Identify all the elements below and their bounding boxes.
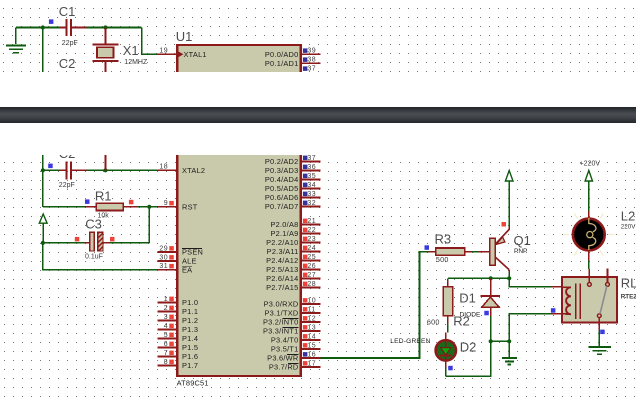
svg-text:11: 11 (307, 306, 315, 313)
pin 15 P3.5/T1 (302, 348, 321, 350)
pin 22 P2.1/A9 (302, 233, 321, 235)
transistor Q1 PNP (479, 251, 490, 253)
svg-text:22pF: 22pF (59, 182, 75, 189)
svg-text:D2: D2 (460, 340, 477, 355)
svg-text:18: 18 (159, 164, 168, 171)
resistor R3 500 (425, 245, 430, 250)
ground (relay) (589, 346, 611, 348)
svg-text:0.1uF: 0.1uF (85, 253, 103, 260)
svg-text:L2: L2 (621, 208, 635, 223)
svg-text:24: 24 (307, 245, 316, 252)
pin 12 P3.2/INT0 (302, 321, 321, 323)
pin 13 P3.3/INT1 (302, 330, 321, 332)
svg-text:P3.6/WR: P3.6/WR (267, 354, 298, 363)
svg-text:37: 37 (307, 155, 316, 162)
svg-text:16: 16 (307, 351, 316, 358)
svg-text:14: 14 (307, 333, 316, 340)
svg-text:RL1: RL1 (621, 276, 636, 291)
chip U1 AT89C51 (bottom portion) (177, 148, 300, 376)
pin 6 P1.5 (158, 347, 177, 349)
svg-text:23: 23 (307, 236, 316, 243)
relay coil (566, 287, 571, 314)
pin 38 P0.1/AD1 (302, 62, 321, 64)
svg-text:P3.0/RXD: P3.0/RXD (264, 300, 299, 309)
pin 19 XTAL1 (158, 53, 177, 55)
svg-text:P0.0/AD0: P0.0/AD0 (265, 50, 299, 59)
svg-text:P0.6/AD6: P0.6/AD6 (265, 193, 299, 202)
svg-text:P1.4: P1.4 (182, 334, 198, 343)
svg-text:P1.2: P1.2 (182, 316, 198, 325)
power +5V arrow terminal (39, 214, 47, 223)
svg-text:500: 500 (436, 255, 449, 264)
svg-text:3: 3 (164, 314, 168, 321)
svg-text:+220V: +220V (580, 160, 601, 167)
relay common pin (598, 318, 600, 330)
svg-text:XTAL1: XTAL1 (184, 50, 207, 59)
svg-text:P0.7/AD7: P0.7/AD7 (265, 202, 299, 211)
svg-text:17: 17 (307, 360, 316, 367)
pin 2 P1.1 (158, 311, 177, 313)
node: D1/LED ground row (489, 339, 493, 343)
svg-text:R3: R3 (435, 231, 452, 246)
svg-text:12: 12 (307, 315, 316, 322)
svg-text:37: 37 (307, 66, 316, 72)
svg-text:9: 9 (164, 200, 168, 207)
pin 37 P0.2/AD2 (cut) (303, 66, 308, 71)
svg-text:P2.1/A9: P2.1/A9 (270, 229, 298, 238)
wire (16, 27, 60, 29)
node: crystal top junction (103, 25, 107, 29)
svg-text:P2.4/A12: P2.4/A12 (266, 256, 298, 265)
svg-text:7: 7 (164, 350, 168, 357)
ground (D1/LED) (508, 341, 510, 357)
svg-text:22: 22 (307, 227, 316, 234)
svg-text:33: 33 (307, 191, 316, 198)
svg-text:P1.7: P1.7 (182, 361, 198, 370)
pin 5 P1.4 (158, 338, 177, 340)
svg-text:P2.5/A13: P2.5/A13 (266, 265, 298, 274)
svg-text:P3.5/T1: P3.5/T1 (271, 345, 299, 354)
svg-text:R1: R1 (95, 189, 112, 204)
pin 3 P1.2 (158, 320, 177, 322)
pin 35 P0.4/AD4 (302, 179, 321, 181)
wire (gnd rail vertical, continues from top view) (42, 155, 44, 207)
svg-text:AT89C51: AT89C51 (177, 378, 209, 387)
svg-text:P0.1/AD1: P0.1/AD1 (265, 59, 299, 68)
svg-text:P2.7/A15: P2.7/A15 (266, 283, 298, 292)
node: ground stem (507, 339, 511, 343)
svg-text:P3.3/INT1: P3.3/INT1 (263, 327, 299, 336)
svg-text:1: 1 (164, 296, 168, 303)
svg-text:600: 600 (427, 317, 440, 326)
resistor R1 10k (43, 206, 86, 208)
svg-text:12MHZ: 12MHZ (124, 59, 148, 66)
pin 23 P2.2/A10 (302, 242, 321, 244)
svg-text:C3: C3 (85, 217, 102, 232)
svg-text:P3.1/TXD: P3.1/TXD (264, 309, 298, 318)
pin 14 P3.4/T0 (302, 339, 321, 341)
wire relay coil bottom to ground node (552, 313, 562, 315)
svg-text:P1.1: P1.1 (182, 307, 198, 316)
lamp L2 220V (588, 211, 590, 219)
svg-text:25: 25 (307, 254, 316, 261)
svg-text:19: 19 (159, 48, 168, 55)
svg-text:X1: X1 (123, 43, 139, 58)
svg-text:39: 39 (307, 48, 316, 55)
svg-text:13: 13 (307, 324, 316, 331)
resistor R2 500 (vertical) (447, 278, 449, 280)
pin 31 EA (158, 269, 177, 271)
svg-text:6: 6 (164, 341, 168, 348)
wire collector node row (508, 273, 510, 279)
svg-text:220V: 220V (621, 224, 636, 231)
pin 17 P3.7/RD (302, 366, 321, 368)
wire collector to relay coil (509, 278, 551, 286)
pin 30 ALE (158, 260, 177, 262)
schematic view: top panel (0, 0, 636, 72)
pin 29 PSEN (158, 251, 177, 253)
svg-text:2: 2 (164, 305, 168, 312)
svg-text:5: 5 (164, 332, 168, 339)
node: RST junction (147, 205, 151, 209)
svg-text:U1: U1 (176, 29, 193, 44)
relay RL1 RTE24005F (562, 277, 617, 323)
capacitor C3 0.1uF (43, 242, 85, 244)
svg-text:36: 36 (307, 164, 316, 171)
window divider bar (0, 107, 636, 123)
svg-text:P1.6: P1.6 (182, 352, 198, 361)
pin 36 P0.3/AD3 (302, 170, 321, 172)
wire (87, 27, 142, 29)
pin 26 P2.5/A13 (302, 269, 321, 271)
svg-text:28: 28 (307, 281, 316, 288)
pin 16 P3.6/WR (302, 357, 321, 359)
svg-text:P3.4/T0: P3.4/T0 (271, 336, 299, 345)
pin 11 P3.1/TXD (302, 312, 321, 314)
svg-text:C2: C2 (59, 155, 76, 161)
pin 33 P0.6/AD6 (302, 197, 321, 199)
node: power/C3 junction (41, 241, 45, 245)
svg-text:P0.4/AD4: P0.4/AD4 (265, 175, 299, 184)
op: U1 chip (AT89C51) top portion (177, 45, 300, 85)
svg-text:C1: C1 (59, 4, 76, 19)
svg-text:P1.0: P1.0 (182, 298, 198, 307)
svg-text:P2.0/A8: P2.0/A8 (270, 220, 298, 229)
pin 37 P0.2/AD2 (302, 161, 321, 163)
LED D2 LED-GREEN (445, 333, 447, 341)
svg-text:PSEN: PSEN (182, 248, 203, 257)
power +5V arrow above Q1 (505, 171, 513, 182)
wire RST junction down to C3 (148, 207, 150, 243)
capacitor C2 22pF (43, 169, 60, 171)
wire to XTAL2 (87, 169, 158, 171)
node: collector/D1 (489, 276, 493, 280)
pin 4 P1.3 (158, 329, 177, 331)
pin 18 XTAL2 (158, 169, 177, 171)
svg-text:27: 27 (307, 272, 316, 279)
node: crystal bottom junction (103, 168, 107, 172)
svg-text:P0.3/AD3: P0.3/AD3 (265, 166, 299, 175)
svg-text:Q1: Q1 (514, 233, 531, 248)
pin 24 P2.3/A11 (302, 251, 321, 253)
pin 39 P0.0/AD0 (302, 53, 321, 55)
relay switch blade (600, 286, 607, 314)
svg-text:P1.5: P1.5 (182, 343, 198, 352)
ground (15, 28, 17, 45)
svg-text:P2.3/A11: P2.3/A11 (267, 247, 299, 256)
wire power to EA (43, 243, 158, 270)
node: C2 left junction (41, 168, 45, 172)
svg-text:35: 35 (307, 173, 316, 180)
pin 1 P1.0 (158, 302, 177, 304)
pin 32 P0.7/AD7 (302, 206, 321, 208)
pin 27 P2.6/A14 (302, 278, 321, 280)
svg-text:P2.6/A14: P2.6/A14 (266, 274, 298, 283)
wire to XTAL1 (142, 28, 158, 55)
svg-text:LED-GREEN: LED-GREEN (390, 338, 430, 345)
pin 34 P0.5/AD5 (302, 188, 321, 190)
svg-text:21: 21 (307, 218, 316, 225)
svg-text:31: 31 (159, 263, 168, 270)
svg-text:38: 38 (307, 57, 316, 64)
svg-text:RST: RST (182, 202, 198, 211)
pin 7 P1.6 (158, 356, 177, 358)
svg-text:34: 34 (307, 182, 316, 189)
node: C1 left / gnd rail junction (41, 25, 45, 29)
pin 8 P1.7 (158, 365, 177, 367)
pin 28 P2.7/A15 (302, 287, 321, 289)
svg-text:PNP: PNP (514, 248, 527, 255)
svg-text:22pF: 22pF (62, 40, 78, 47)
pin 10 P3.0/RXD (302, 303, 321, 305)
crystal X1 12MHZ (105, 28, 107, 44)
pin 21 P2.0/A8 (302, 224, 321, 226)
pin 25 P2.4/A12 (302, 260, 321, 262)
svg-text:P2.2/A10: P2.2/A10 (266, 238, 298, 247)
svg-text:10: 10 (307, 297, 316, 304)
capacitor C1 (60, 27, 66, 29)
svg-text:P0.5/AD5: P0.5/AD5 (265, 184, 299, 193)
svg-text:P3.2/INT0: P3.2/INT0 (263, 318, 299, 327)
svg-text:15: 15 (307, 342, 316, 349)
wire P3.6 to R3 (321, 252, 429, 358)
svg-text:P1.3: P1.3 (182, 325, 198, 334)
svg-text:8: 8 (164, 359, 168, 366)
svg-text:D1: D1 (459, 291, 476, 306)
wire (vertical to lower view) (42, 28, 44, 73)
svg-text:32: 32 (307, 200, 316, 207)
svg-text:ALE: ALE (182, 257, 197, 266)
wire: crystal X1 bottom lead (cut) (105, 155, 107, 171)
svg-text:EA: EA (182, 265, 192, 274)
node: collector/relay (507, 276, 511, 280)
svg-text:RTE24005F: RTE24005F (621, 293, 636, 300)
svg-text:P3.7/RD: P3.7/RD (269, 363, 299, 372)
svg-text:4: 4 (164, 323, 168, 330)
svg-text:C2: C2 (59, 56, 76, 71)
relay contacts (588, 269, 590, 282)
svg-text:DIODE: DIODE (460, 312, 481, 319)
svg-text:29: 29 (159, 245, 168, 252)
pin 9 RST (158, 206, 177, 208)
svg-text:26: 26 (307, 263, 316, 270)
svg-text:XTAL2: XTAL2 (182, 166, 205, 175)
svg-text:30: 30 (159, 254, 168, 261)
wire LED to ground node (446, 341, 491, 376)
svg-text:P0.2/AD2: P0.2/AD2 (265, 157, 299, 166)
diode D1 DIODE (490, 278, 492, 295)
schematic view: bottom panel (0, 155, 636, 398)
